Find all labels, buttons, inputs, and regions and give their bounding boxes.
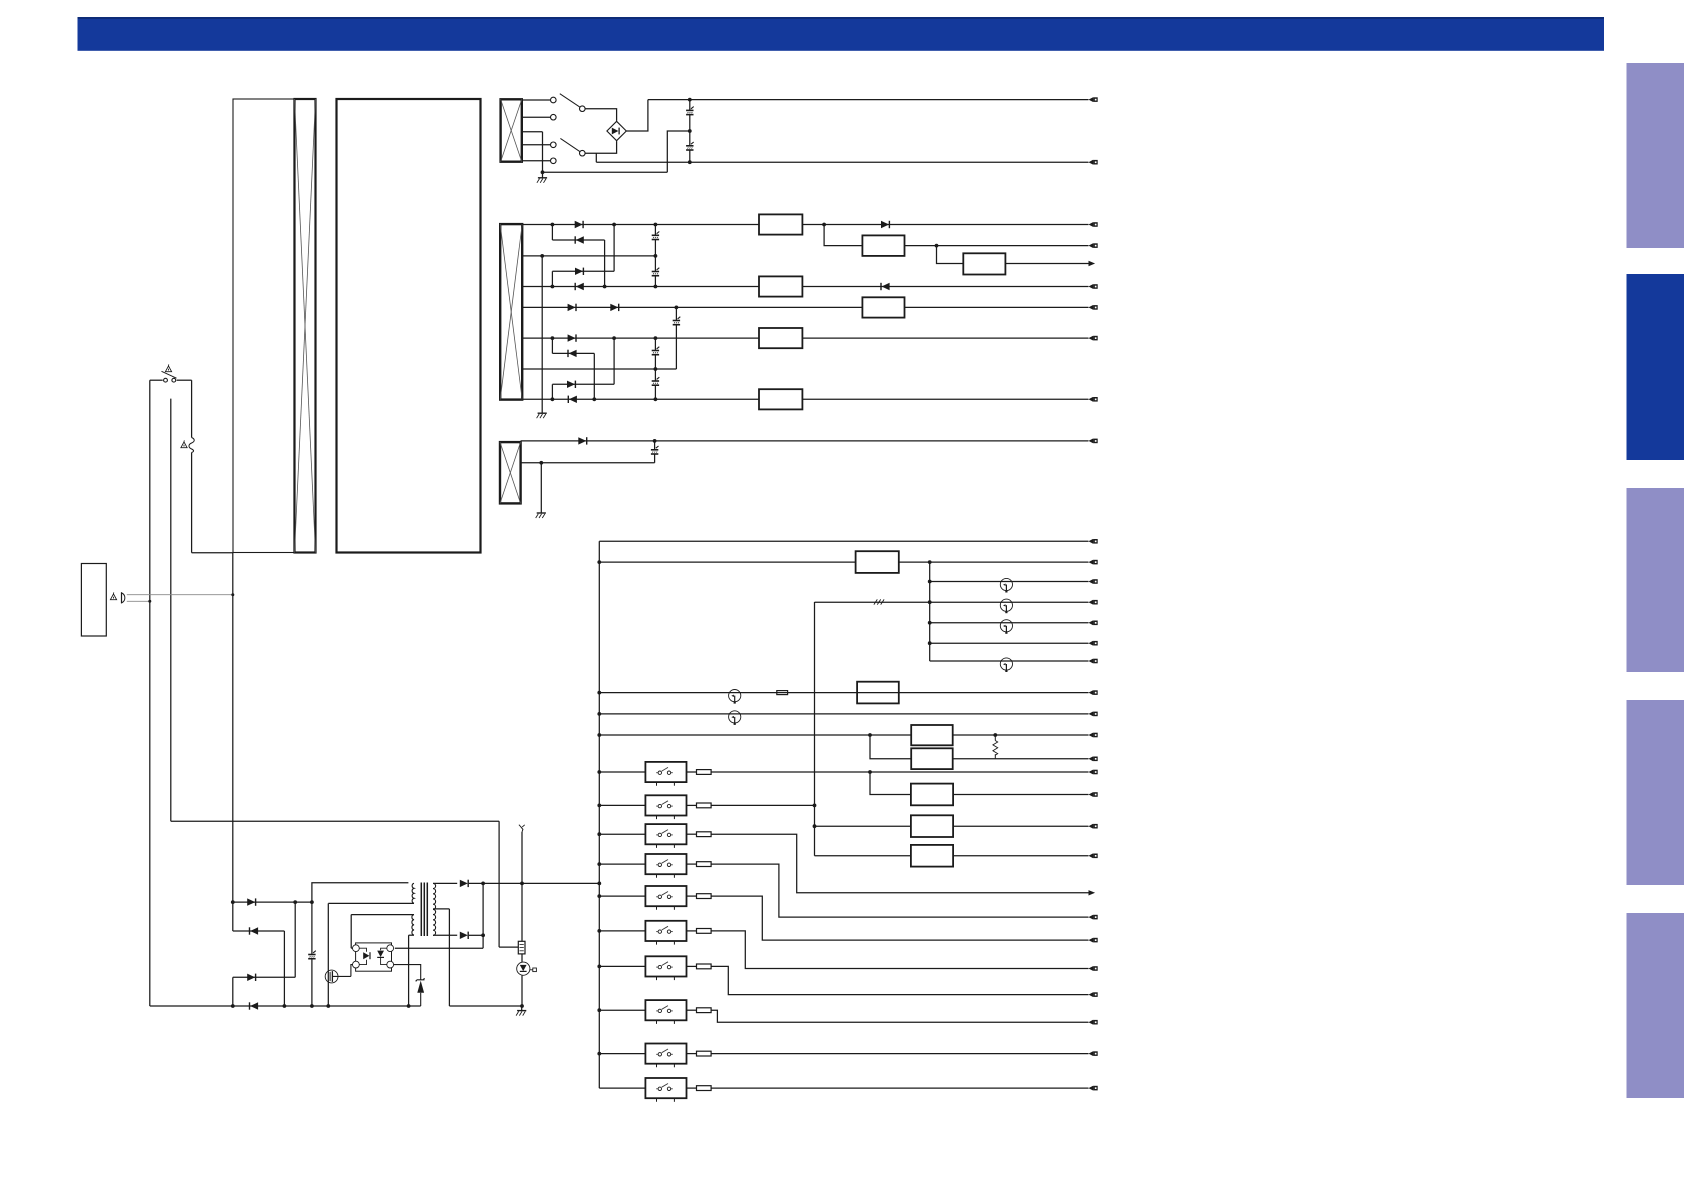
lamp L1 xyxy=(1000,578,1012,590)
rail row B7 left xyxy=(522,398,759,400)
rail row B6 (ends at capacitor branch) xyxy=(522,368,676,370)
relay K5 feed wire xyxy=(599,895,645,897)
unit box B4 xyxy=(862,297,904,317)
wire D9 branch xyxy=(552,338,614,399)
wire right vertical from S1 to thermal cutout xyxy=(191,380,193,437)
T2 secondary bottom lead xyxy=(433,934,457,936)
capacitor C3 xyxy=(652,225,660,256)
transformer T2 primary winding xyxy=(412,883,414,903)
junction dot relay K4 bus xyxy=(597,862,601,866)
wire left vertical from S1 xyxy=(149,380,151,1006)
interlock switch S1 contacts xyxy=(162,371,177,382)
wire SW1 pivot to bridge top xyxy=(585,109,617,121)
relay K3 feed wire xyxy=(599,833,645,835)
T2 feedback top lead to optocoupler xyxy=(351,915,414,949)
relay K9 feed wire xyxy=(599,1053,645,1055)
buzzer lead bottom xyxy=(127,600,150,602)
return wire row C2 xyxy=(521,462,655,464)
terminal lamp row 3 xyxy=(1089,620,1094,625)
capacitor C4 xyxy=(652,256,660,287)
diode D17 xyxy=(460,932,468,939)
wire relay K3 to fuse xyxy=(687,833,697,835)
relay K7 output stepped wire xyxy=(711,966,1088,994)
feed vertical from PSU rail xyxy=(814,602,816,856)
fuse F10 xyxy=(697,1008,712,1013)
row D2 wire xyxy=(599,561,855,563)
buzzer BZ1 xyxy=(122,592,125,603)
junction dot relay K1 output branch xyxy=(868,770,872,774)
wire R1 to SCR xyxy=(521,954,523,962)
control unit box (left) xyxy=(81,564,106,637)
wire SCR to bottom rail xyxy=(521,975,523,1006)
snubber branch vertical with capacitor C9 xyxy=(308,883,408,1006)
relay K1 output wire xyxy=(711,771,1088,773)
diode D15 on bottom rail xyxy=(249,1002,251,1009)
switch SW1 contact circle xyxy=(551,97,557,103)
optocoupler LED xyxy=(359,948,370,964)
rail row B1 right xyxy=(802,224,1088,226)
fuse F5 xyxy=(697,832,712,837)
relay K1 xyxy=(645,762,686,782)
diode D11 xyxy=(578,437,586,444)
terminal relay K9 xyxy=(1089,1051,1094,1056)
wire D3 branch xyxy=(552,225,614,287)
terminal relay K7 xyxy=(1089,992,1094,997)
row D5 wire right xyxy=(953,734,1089,736)
row D5 wire xyxy=(599,734,911,736)
terminal arrow relay K3 xyxy=(1089,890,1096,895)
junction dots row B5 xyxy=(551,336,658,340)
sidebar tab 2 (active) xyxy=(1627,274,1684,460)
unit box B2x xyxy=(862,235,904,256)
lamp L3 xyxy=(1000,620,1012,632)
unit box U2 xyxy=(856,551,899,573)
PSU row A wire xyxy=(233,901,312,903)
junction dot PSU rail at bus xyxy=(597,882,601,886)
sidebar tab 3 xyxy=(1627,488,1684,672)
resistor R1 xyxy=(518,941,525,954)
junction dot D13 branch bottom xyxy=(283,1004,287,1008)
PSU row C wire xyxy=(233,902,295,1006)
junction dot row D5 branch xyxy=(868,733,872,737)
fuse F3 xyxy=(697,770,712,775)
junction dot relay K7 bus xyxy=(597,965,601,969)
lamp L4 xyxy=(1000,658,1012,670)
ground branch wire C xyxy=(540,463,542,513)
rail row B5 right xyxy=(802,337,1088,339)
diode D5 xyxy=(568,304,576,311)
junction dots row B7 xyxy=(551,397,658,401)
capacitor C8 xyxy=(651,441,659,463)
T2 secondary mid tap xyxy=(433,909,449,1006)
terminal row B3 xyxy=(1089,284,1094,289)
row D4 wire xyxy=(599,713,1088,715)
zener diode ZD1 xyxy=(394,965,425,1006)
diode D16 xyxy=(460,880,468,887)
distribution bus vertical xyxy=(598,541,600,1088)
cable harness W1 (narrow rectangle with X) xyxy=(295,99,316,553)
junction dot relay K8 bus xyxy=(597,1008,601,1012)
junction dot PSU rail at hook branch xyxy=(520,882,524,886)
junction dot buzzer top lead xyxy=(231,593,234,596)
junction dot ground node xyxy=(541,170,545,174)
junction dot D17 xyxy=(481,933,485,937)
lamp row 1 wire xyxy=(930,581,1089,583)
SCR Q2 xyxy=(517,962,537,975)
terminal row D5 xyxy=(1089,733,1094,738)
T2 primary bottom lead xyxy=(328,903,414,1006)
wire from thermal cutout to block bottom edge xyxy=(192,453,233,553)
row U6 wire right xyxy=(953,794,1088,796)
branch wire to U6 xyxy=(870,772,911,795)
buzzer lead top (to bus) xyxy=(127,594,233,596)
junction dot relay K1 bus xyxy=(597,770,601,774)
junction dot row D2 branch xyxy=(928,560,932,564)
junction dots row B3 xyxy=(551,285,658,289)
row U7 wire right xyxy=(953,825,1088,827)
wire stub 1 from winding to switch contact xyxy=(522,99,551,101)
terminal row B5 xyxy=(1089,336,1094,341)
wire relay K8 to fuse xyxy=(687,1009,697,1011)
junction dot lamp row 2 xyxy=(928,600,932,604)
wire stub 5 xyxy=(522,160,551,162)
rail row B5 left xyxy=(522,337,759,339)
ground symbol G3 xyxy=(537,512,546,514)
diode D4b xyxy=(880,283,882,290)
wire relay K5 to fuse xyxy=(687,895,697,897)
unit box U3 xyxy=(857,682,899,704)
T2 feedback bottom lead xyxy=(409,935,414,1006)
unit box B7 xyxy=(759,389,802,409)
terminal row C1 xyxy=(1089,439,1094,444)
startup resistor R1 branch xyxy=(519,825,525,942)
terminal relay K8 xyxy=(1089,1020,1094,1025)
rail row B4 left xyxy=(522,306,862,308)
T2 secondary top lead xyxy=(433,882,457,884)
wire vertical bus from block P1 down to PSU xyxy=(232,553,234,931)
transformer T2 core xyxy=(421,883,427,937)
wire relay K10 to fuse xyxy=(687,1087,697,1089)
PSU bottom rail right segment xyxy=(449,1005,521,1007)
diode D9 xyxy=(567,381,575,388)
relay K8 xyxy=(645,1000,686,1020)
relay K9 xyxy=(645,1044,686,1064)
junction dot relay K9 bus xyxy=(597,1052,601,1056)
transformer T1 secondary winding box 3 xyxy=(500,442,521,503)
switch SW2 lever and pivot xyxy=(560,138,585,156)
ground symbol G2 xyxy=(538,412,547,414)
terminal lamp row 2 xyxy=(1089,600,1094,605)
relay K6 xyxy=(645,921,686,941)
junction dot D16 output xyxy=(481,882,485,886)
junction dot row B2x xyxy=(935,244,939,248)
transformer T1 primary winding box xyxy=(501,99,522,161)
junction dot PSU row C bus xyxy=(231,1004,235,1008)
junction dot row D2 bus xyxy=(597,560,601,564)
fuse F8 xyxy=(697,929,712,934)
terminal row D4 xyxy=(1089,712,1094,717)
junction dot C1/C2 midpoint xyxy=(688,129,692,133)
thermostat TS2 xyxy=(729,711,741,723)
junction dot row no-lamp xyxy=(928,641,932,645)
ground branch wire secondary xyxy=(541,256,543,413)
switch SW2 contact circle xyxy=(551,142,557,148)
terminal lamp row 4 xyxy=(1089,659,1094,664)
junction dot row B6 xyxy=(654,367,658,371)
junction dot row D4 bus xyxy=(597,712,601,716)
relay K3 output stepped wire xyxy=(711,834,1088,893)
wire stub 4 xyxy=(522,144,551,146)
terminal row U8 xyxy=(1089,853,1094,858)
optocoupler U1 body xyxy=(356,943,392,971)
transformer T2 feedback winding xyxy=(412,915,414,935)
thermal cutout F1 (squiggle) xyxy=(189,438,194,453)
sidebar tab 5 xyxy=(1627,913,1684,1098)
middle vertical corner wire to startup resistor xyxy=(171,821,519,947)
diode D4 xyxy=(574,283,576,290)
sidebar tab 4 xyxy=(1627,700,1684,885)
diode D1 xyxy=(575,221,583,228)
unit box B3 xyxy=(759,276,802,296)
ground symbol G4 xyxy=(516,1006,526,1016)
main board block (large rectangle) xyxy=(337,99,481,553)
rail row B3 left xyxy=(522,286,759,288)
terminal arrow AC bottom xyxy=(1089,160,1094,165)
fuse F2 xyxy=(777,691,788,695)
unit box U7 xyxy=(911,815,953,837)
junction dot row B4 xyxy=(675,306,679,310)
terminal row D3 xyxy=(1089,690,1094,695)
thermostat TS1 xyxy=(729,690,741,702)
wire junction to lower AC rail xyxy=(595,153,597,162)
terminal relay K4 xyxy=(1089,915,1094,920)
junction dot lamp row 1 xyxy=(928,580,932,584)
page header bar xyxy=(78,17,1605,51)
relay K10 feed wire xyxy=(599,1087,645,1089)
optocoupler U1 pins xyxy=(353,945,394,968)
row D1 wire xyxy=(599,540,1088,542)
junction dot row U7 xyxy=(813,824,817,828)
junction dot relay K5 bus xyxy=(597,894,601,898)
rail row B2 (ends at capacitor) xyxy=(522,255,655,257)
relay K4 feed wire xyxy=(599,863,645,865)
terminal lamp row 1 xyxy=(1089,579,1094,584)
switch contact circle 4 xyxy=(551,158,557,164)
unit box B3x xyxy=(963,253,1005,274)
warning triangle 1 xyxy=(165,366,171,372)
terminal row B1 xyxy=(1089,222,1094,227)
diode D13 xyxy=(249,927,251,934)
junction dot row D5 bus xyxy=(597,733,601,737)
terminal row B7 xyxy=(1089,397,1094,402)
diode D1b xyxy=(881,221,889,228)
relay K2 feed wire xyxy=(599,804,645,806)
rail row B1 left xyxy=(522,224,759,226)
junction dot relay K6 bus xyxy=(597,929,601,933)
warning triangle 3 xyxy=(110,594,116,600)
transistor Q1 xyxy=(325,965,352,983)
switch SW1 lever and pivot xyxy=(560,94,585,112)
fuse F6 xyxy=(697,862,712,867)
wire stub 2 xyxy=(522,116,551,118)
wire stub 3 center tap xyxy=(522,131,543,133)
fuse F12 xyxy=(697,1086,712,1091)
relay K9 output wire xyxy=(711,1053,1088,1055)
junction dot PSU row A right xyxy=(310,900,314,904)
wire relay K1 to fuse xyxy=(687,771,697,773)
junction dot PSU row A mid xyxy=(293,900,297,904)
diode D10 xyxy=(567,396,569,403)
warning triangle 2 xyxy=(181,442,187,448)
row B2x output wire xyxy=(905,245,1089,247)
diode D8 xyxy=(567,350,569,357)
junction dot SCR bottom xyxy=(520,1004,524,1008)
diode D14 xyxy=(247,974,255,981)
bridge rectifier DB1 xyxy=(607,121,626,140)
cascade wire to unit box B3x xyxy=(937,246,964,264)
ground symbol G1 xyxy=(537,172,547,183)
wire relay K9 to fuse xyxy=(687,1053,697,1055)
relay K1 feed wire xyxy=(599,771,645,773)
junction dots row B2 xyxy=(540,254,657,258)
unit box U5 xyxy=(911,748,953,769)
wire bridge output to top AC rail xyxy=(626,100,648,131)
relay K6 output stepped wire xyxy=(711,931,1088,969)
junction dot row C1 xyxy=(653,439,657,443)
transformer T2 secondary winding xyxy=(433,883,436,935)
AC rail bottom (to terminal) xyxy=(596,161,1088,163)
heater return wire with break xyxy=(815,599,1089,604)
terminal relay K5 xyxy=(1089,938,1094,943)
terminal row U6 xyxy=(1089,792,1094,797)
junction dot T2 primary lead xyxy=(326,1004,330,1008)
relay K2 xyxy=(645,795,686,815)
junction dots row B1 xyxy=(551,223,826,227)
relay K5 output stepped wire xyxy=(711,896,1088,940)
relay K5 xyxy=(645,886,686,906)
vertical output junction wire xyxy=(482,883,484,948)
wire relay K4 to fuse xyxy=(687,863,697,865)
relay K7 feed wire xyxy=(599,965,645,967)
terminal relay K1 xyxy=(1089,770,1094,775)
junction dot cap C1 top xyxy=(688,98,692,102)
row D6 wire right xyxy=(953,758,1089,760)
row D2 wire right xyxy=(899,561,1089,563)
row without lamp wire xyxy=(930,642,1089,644)
wire relay K7 to fuse xyxy=(687,965,697,967)
diode D6 xyxy=(610,304,618,311)
row U8 wire xyxy=(815,855,911,857)
connector block P1 (tall rectangle) xyxy=(233,99,294,553)
terminal arrow row B3x xyxy=(1089,261,1096,266)
junction dot lamp row 3 xyxy=(928,621,932,625)
unit box B5 xyxy=(759,328,802,348)
diode D3 xyxy=(575,268,583,275)
terminal relay K10 xyxy=(1089,1086,1094,1091)
resistor R2 between rows xyxy=(993,733,998,759)
junction dot C2 bottom xyxy=(688,160,692,164)
row U7 wire xyxy=(815,825,911,827)
junction dot C ground branch xyxy=(539,461,543,465)
relay K8 output stepped wire xyxy=(711,1010,1088,1022)
PSU row B wire with left diode xyxy=(233,931,285,1006)
terminal row D1 xyxy=(1089,539,1094,544)
switch contact circle 2 xyxy=(551,114,557,120)
fuse F4 xyxy=(697,803,712,808)
rail row B3 right xyxy=(802,286,1088,288)
branch wire to U5 xyxy=(870,735,911,759)
unit box U4 xyxy=(911,725,953,745)
PSU output rail to relay bus xyxy=(469,882,600,884)
cascade wire to unit box B2x xyxy=(824,225,862,246)
wire D8 branch xyxy=(552,338,594,399)
terminal arrow AC top xyxy=(1089,97,1094,102)
capacitor C5 (row B4 to row B6) xyxy=(673,307,681,369)
junction dot PSU row A left xyxy=(231,900,235,904)
terminal row U7 xyxy=(1089,824,1094,829)
lamp row 3 wire xyxy=(930,622,1089,624)
relay K4 xyxy=(645,854,686,874)
junction dot relay K2 bus xyxy=(597,804,601,808)
wire relay K2 to fuse xyxy=(687,804,697,806)
terminal row D6 xyxy=(1089,756,1094,761)
relay K3 xyxy=(645,824,686,844)
wire middle vertical (hanging) xyxy=(170,399,172,822)
lamp L2 xyxy=(1000,599,1012,611)
row B3x output wire xyxy=(1005,263,1088,265)
terminal row B2x xyxy=(1089,243,1094,248)
PSU bottom rail left segment xyxy=(150,1005,421,1007)
junction dot C9 bottom xyxy=(310,1004,314,1008)
relay K4 output stepped wire xyxy=(711,864,1088,917)
relay K7 xyxy=(645,956,686,976)
diode D2 xyxy=(574,236,576,243)
AC rail top (to terminal) xyxy=(648,99,1089,101)
unit box U6 xyxy=(911,784,953,806)
terminal row B4 xyxy=(1089,305,1094,310)
capacitor C2 xyxy=(686,131,694,162)
wire center tap vertical to ground junction xyxy=(542,132,544,173)
wire D17 to output junction xyxy=(469,934,483,936)
wire D2 branch (row1 down, left-diode, down to row3 path) xyxy=(552,225,604,287)
row U8 wire right xyxy=(953,855,1088,857)
terminal row no-lamp xyxy=(1089,641,1094,646)
row D3 wire xyxy=(599,692,1088,694)
junction dot row D3 bus xyxy=(597,691,601,695)
fuse F9 xyxy=(697,964,712,969)
relay K8 feed wire xyxy=(599,1009,645,1011)
fuse F11 xyxy=(697,1051,712,1056)
diode D12 xyxy=(247,898,255,905)
junction dot relay K3 bus xyxy=(597,832,601,836)
rail row B7 right xyxy=(802,398,1088,400)
junction dot buzzer bottom lead xyxy=(148,600,151,603)
capacitor C7 xyxy=(652,369,660,399)
fuse F7 xyxy=(697,894,712,899)
relay K10 output wire xyxy=(711,1087,1088,1089)
lamp branch vertical xyxy=(929,562,931,661)
wire relay K6 to fuse xyxy=(687,930,697,932)
relay K2 output wire to feed vertical xyxy=(711,804,814,806)
terminal row D2 xyxy=(1089,560,1094,565)
capacitor C1 xyxy=(686,100,694,131)
unit box U8 xyxy=(911,845,953,867)
lamp row 4 wire xyxy=(930,660,1089,662)
optocoupler photodiode xyxy=(377,948,387,964)
wire ground-return to cap midpoint xyxy=(543,131,690,172)
wire to optocoupler phototransistor xyxy=(395,947,483,949)
interlock switch S1 wiring xyxy=(150,379,192,381)
